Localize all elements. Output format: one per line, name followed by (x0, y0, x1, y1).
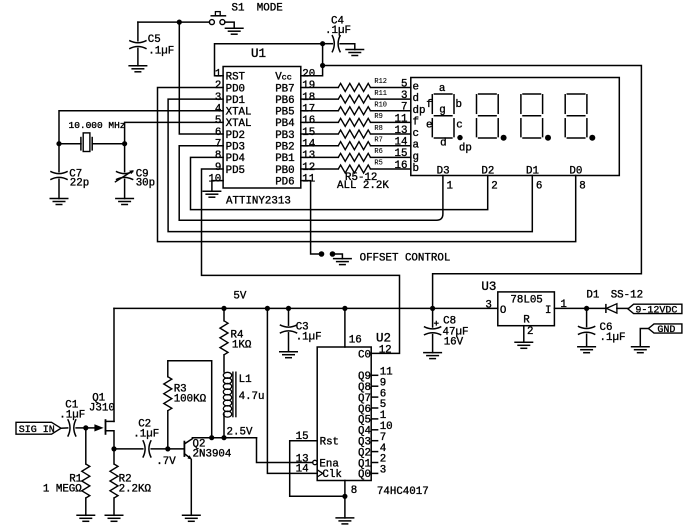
inductor L1 (223, 372, 236, 438)
node R3 connection (209, 435, 214, 440)
svg-text:9: 9 (215, 162, 221, 174)
svg-text:dp: dp (459, 143, 472, 155)
svg-text:2N3904: 2N3904 (193, 449, 232, 461)
svg-text:6: 6 (215, 127, 221, 139)
svg-text:14: 14 (395, 137, 408, 149)
svg-text:7: 7 (401, 102, 407, 114)
svg-text:PB7: PB7 (275, 83, 294, 95)
node C1/R1/Q1 gate (83, 425, 88, 430)
IC U2 74HC4017 body (317, 347, 371, 481)
node Q1 source / R2 / C2 (111, 446, 116, 451)
node C4 junction (320, 41, 325, 46)
resistor R4 (220, 308, 228, 372)
wire C5 to S1 node (138, 21, 210, 23)
node Q2 base / .7V (165, 446, 170, 451)
node 5V regulator output (430, 306, 435, 311)
wire Q1 drain to 5V rail (113, 308, 115, 421)
node C3 top (286, 306, 291, 311)
display digit 2 dp dot (501, 135, 507, 141)
svg-text:2: 2 (215, 80, 221, 92)
svg-text:R5: R5 (374, 160, 382, 168)
svg-text:.1µF: .1µF (296, 331, 322, 343)
wire PD4 to display D2 pin2 (191, 157, 488, 209)
resistor R3 (164, 361, 212, 449)
ground at Q2 emitter (182, 515, 201, 521)
wire 2.5V node (193, 437, 257, 439)
capacitor C9 trimmer (115, 144, 134, 199)
svg-text:C5: C5 (148, 34, 161, 46)
svg-text:.1µF: .1µF (148, 46, 174, 58)
wire U2 pin16 to 5V (344, 308, 346, 347)
U2 output pin labels Q9-Q0 (358, 371, 371, 481)
svg-text:PD4: PD4 (226, 153, 245, 165)
wire S1 to ground (225, 22, 234, 28)
svg-text:RST: RST (226, 72, 246, 84)
svg-text:e: e (426, 120, 432, 132)
svg-text:8: 8 (351, 485, 357, 497)
svg-text:XTAL: XTAL (226, 107, 252, 119)
svg-text:2.5V: 2.5V (227, 427, 253, 439)
svg-text:Clk: Clk (322, 469, 341, 481)
wire U1 pin10 to ground (212, 181, 223, 192)
svg-text:SIG IN: SIG IN (19, 425, 55, 436)
wire GND connector to ground (640, 329, 648, 347)
ground at C3 (279, 352, 298, 358)
resistor R1 (82, 428, 90, 515)
svg-text:O: O (500, 305, 506, 317)
capacitor C8 (424, 308, 441, 352)
svg-text:.1µF: .1µF (59, 409, 85, 421)
svg-text:a: a (413, 140, 420, 152)
svg-text:17: 17 (302, 104, 315, 116)
svg-text:19: 19 (302, 80, 315, 92)
svg-text:1KΩ: 1KΩ (232, 340, 252, 352)
svg-text:GND: GND (657, 325, 675, 336)
svg-text:10.000 MHz: 10.000 MHz (69, 120, 126, 131)
transistor Q1 J310 (86, 419, 114, 449)
svg-text:1: 1 (447, 180, 453, 192)
U1 right pin labels (275, 72, 294, 189)
node S1/C5/PD2 junction (177, 20, 182, 25)
resistor R12 (301, 83, 411, 91)
svg-text:d: d (413, 93, 419, 105)
regulator U3 78L05 body (498, 292, 555, 326)
capacitor C5 (129, 22, 146, 66)
connector GND (648, 324, 682, 336)
svg-text:SS-12: SS-12 (611, 290, 643, 302)
svg-text:3: 3 (215, 92, 221, 104)
svg-text:16: 16 (302, 115, 315, 127)
resistor R10 (301, 107, 411, 115)
wire PD2 pin6 to S1 (179, 22, 223, 134)
svg-text:R6: R6 (374, 148, 382, 156)
op-amp U1 ATTINY2313 body (223, 67, 301, 189)
svg-text:78L05: 78L05 (510, 295, 542, 307)
svg-text:.1µF: .1µF (133, 429, 159, 441)
svg-text:I: I (545, 305, 551, 317)
svg-text:ATTINY2313: ATTINY2313 (226, 196, 291, 208)
ground at C9 (115, 199, 134, 205)
svg-text:14: 14 (302, 139, 315, 151)
svg-text:11: 11 (302, 174, 315, 186)
svg-text:a: a (439, 83, 446, 95)
wire offset pin2 to ground (335, 254, 343, 259)
svg-text:2: 2 (491, 180, 497, 192)
svg-text:16V: 16V (444, 337, 464, 349)
capacitor C1 (61, 419, 86, 436)
display digit pin numbers (447, 180, 586, 192)
svg-text:11: 11 (395, 113, 408, 125)
ground at C7 (50, 199, 69, 205)
display digit 3 dp dot (545, 135, 551, 141)
svg-text:3: 3 (401, 90, 407, 102)
svg-text:Vcc: Vcc (275, 72, 292, 84)
svg-text:Rst: Rst (320, 437, 339, 449)
svg-text:c: c (456, 120, 462, 132)
wire U2 Ena to 2.5V node (257, 438, 313, 463)
wire U3 pin2 to ground (523, 326, 525, 343)
svg-text:S1: S1 (232, 2, 245, 14)
svg-text:.1µF: .1µF (325, 25, 351, 37)
svg-text:PD5: PD5 (226, 165, 245, 177)
ground at R1 (76, 515, 95, 521)
svg-text:.7V: .7V (156, 456, 176, 468)
svg-text:10: 10 (208, 174, 221, 186)
ground at U3 (514, 342, 533, 348)
display segment pin numbers (395, 78, 408, 172)
display digit 4 segments (565, 94, 587, 138)
node D1/C6 junction (584, 306, 589, 311)
svg-text:R10: R10 (374, 102, 387, 110)
svg-text:16: 16 (349, 335, 362, 347)
svg-text:9-12VDC: 9-12VDC (635, 305, 677, 316)
svg-text:ALL 2.2K: ALL 2.2K (337, 180, 389, 192)
ground at R2 (105, 515, 124, 521)
svg-text:PB5: PB5 (275, 107, 294, 119)
transistor Q2 2N3904 (168, 438, 193, 516)
svg-text:PB3: PB3 (275, 130, 294, 142)
svg-text:L1: L1 (239, 374, 252, 386)
resistor R5 (301, 165, 411, 173)
svg-text:PB2: PB2 (275, 142, 294, 154)
svg-text:e: e (413, 82, 419, 94)
svg-text:XTAL: XTAL (226, 118, 252, 130)
ground at C4 (345, 50, 364, 56)
ground at U1 pin10 (202, 191, 221, 197)
svg-text:PB4: PB4 (275, 118, 294, 130)
svg-text:PD2: PD2 (226, 130, 245, 142)
resistor R2 (110, 449, 118, 515)
capacitor C3 (280, 308, 297, 351)
wire PD1 to display D1 pin6 (168, 99, 532, 232)
svg-text:f: f (426, 99, 432, 111)
U1 right pin numbers (302, 69, 315, 186)
wire 5V rail top right (323, 66, 642, 309)
U2 Ena inverter circle (313, 460, 317, 464)
svg-text:PD6: PD6 (275, 176, 294, 188)
wire U2 C0 pin12 to PD5 (202, 169, 400, 353)
svg-text:g: g (439, 104, 445, 116)
svg-text:Q0: Q0 (358, 469, 371, 481)
svg-text:dp: dp (413, 105, 426, 117)
svg-text:OFFSET CONTROL: OFFSET CONTROL (360, 252, 451, 264)
wire 5V rail (114, 307, 498, 309)
svg-text:R: R (523, 315, 530, 327)
connector 9-12VDC (628, 304, 682, 316)
svg-text:12: 12 (302, 162, 315, 174)
node U2 Vcc (342, 306, 347, 311)
U1 left pin numbers (208, 69, 221, 186)
wire RST to Vcc/C4 node (215, 44, 323, 76)
ground at GND connector (631, 347, 650, 353)
svg-text:MODE: MODE (257, 2, 283, 14)
svg-text:D1: D1 (586, 290, 599, 302)
node crystal right junction (122, 141, 127, 146)
U2 output pin numbers (380, 367, 393, 477)
ground at C8 (423, 353, 442, 359)
svg-text:100KΩ: 100KΩ (174, 394, 207, 406)
wire U2 Rst to ground (290, 441, 345, 497)
svg-text:4.7u: 4.7u (239, 391, 265, 403)
wire U3 output to input node (554, 307, 606, 309)
svg-text:2: 2 (527, 326, 533, 338)
crystal Y1 (59, 133, 125, 152)
svg-text:13: 13 (395, 125, 408, 137)
node crystal left junction (56, 141, 61, 146)
resistor R11 (301, 95, 411, 103)
svg-text:74HC4017: 74HC4017 (377, 486, 429, 498)
svg-text:R8: R8 (374, 125, 382, 133)
svg-text:.1µF: .1µF (600, 332, 626, 344)
node Vcc rail junction (320, 63, 325, 68)
display digit 2 segments (477, 94, 499, 138)
svg-text:U1: U1 (251, 47, 266, 61)
wire PD0 to display D0 pin8 (158, 87, 576, 241)
svg-text:R9: R9 (374, 113, 382, 121)
ground at C5 (128, 66, 147, 72)
svg-text:b: b (413, 163, 419, 175)
svg-text:c: c (413, 128, 419, 140)
capacitor C4 (323, 35, 355, 52)
svg-text:3: 3 (485, 299, 491, 311)
svg-text:15: 15 (395, 148, 408, 160)
node U2 ground junction (342, 494, 347, 499)
wire PD3 to display D3 pin1 (179, 146, 443, 221)
resistor R7 (301, 142, 411, 150)
display digit 1 dp dot (457, 135, 462, 140)
diode D1 (606, 304, 628, 313)
svg-text:3: 3 (380, 465, 386, 477)
svg-text:22p: 22p (70, 178, 89, 190)
svg-text:C0: C0 (358, 349, 371, 361)
svg-text:8: 8 (215, 150, 221, 162)
svg-text:16: 16 (395, 160, 408, 172)
digit 1 segment labels (426, 83, 472, 155)
svg-text:12: 12 (379, 344, 392, 356)
svg-text:15: 15 (302, 127, 315, 139)
svg-text:PB6: PB6 (275, 95, 294, 107)
svg-text:2.2KΩ: 2.2KΩ (119, 484, 152, 496)
ground at S1 (225, 28, 244, 34)
svg-text:PD3: PD3 (226, 142, 245, 154)
svg-text:20: 20 (302, 69, 315, 81)
svg-text:PB1: PB1 (275, 153, 294, 165)
svg-text:13: 13 (302, 150, 315, 162)
svg-text:6: 6 (536, 180, 542, 192)
display digit 4 dp dot (589, 135, 595, 141)
node clk riser (265, 306, 270, 311)
wire Vcc vertical (301, 44, 323, 76)
resistor R9 (301, 118, 411, 126)
display digit 3 segments (521, 94, 543, 138)
svg-text:1: 1 (215, 69, 221, 81)
svg-text:18: 18 (302, 92, 315, 104)
wire U2 pin8 to ground (344, 481, 346, 518)
svg-text:g: g (413, 151, 419, 163)
svg-text:R7: R7 (374, 136, 382, 144)
svg-text:d: d (440, 137, 446, 149)
switch S1 (209, 12, 226, 25)
wire U2 Clk to 5V (267, 308, 317, 473)
resistor R6 (301, 153, 411, 161)
offset header pin 1 (319, 251, 325, 257)
svg-text:7: 7 (215, 139, 221, 151)
svg-text:R12: R12 (374, 78, 387, 86)
display digit 1 segments (432, 94, 454, 138)
display DIS1 body (411, 78, 620, 176)
svg-text:PD1: PD1 (226, 95, 245, 107)
offset header pin 2 (330, 251, 336, 257)
svg-text:5: 5 (401, 78, 407, 90)
U1 left pin labels (226, 72, 252, 177)
ground at offset header (333, 259, 352, 265)
display segment letters (413, 82, 426, 176)
svg-text:f: f (413, 116, 419, 128)
capacitor C7 (50, 144, 67, 199)
node R4 top (221, 306, 226, 311)
svg-text:5V: 5V (233, 291, 246, 303)
svg-text:PD0: PD0 (226, 83, 245, 95)
ground at U2 (335, 518, 354, 524)
capacitor C6 (578, 308, 595, 346)
U2 clock edge marker (317, 470, 323, 477)
svg-text:PB0: PB0 (275, 165, 294, 177)
svg-text:U3: U3 (481, 280, 496, 294)
svg-text:8: 8 (579, 180, 585, 192)
svg-text:b: b (456, 99, 462, 111)
wire XTAL pin4 to crystal left (59, 111, 223, 144)
svg-text:J310: J310 (89, 403, 115, 415)
svg-text:30p: 30p (136, 178, 155, 190)
svg-text:4: 4 (215, 104, 221, 116)
connector SIG IN (16, 422, 61, 436)
ground at C6 (577, 347, 596, 353)
wire XTAL pin5 to crystal right (125, 122, 224, 143)
capacitor C2 (114, 440, 168, 457)
node L1 bottom (221, 435, 226, 440)
U2 output pin stubs (371, 375, 377, 473)
svg-text:1 MEGΩ: 1 MEGΩ (43, 484, 82, 496)
resistor R8 (301, 130, 411, 138)
svg-text:5: 5 (215, 115, 221, 127)
wire PD6 to offset header (301, 181, 319, 254)
svg-text:R11: R11 (374, 90, 387, 98)
